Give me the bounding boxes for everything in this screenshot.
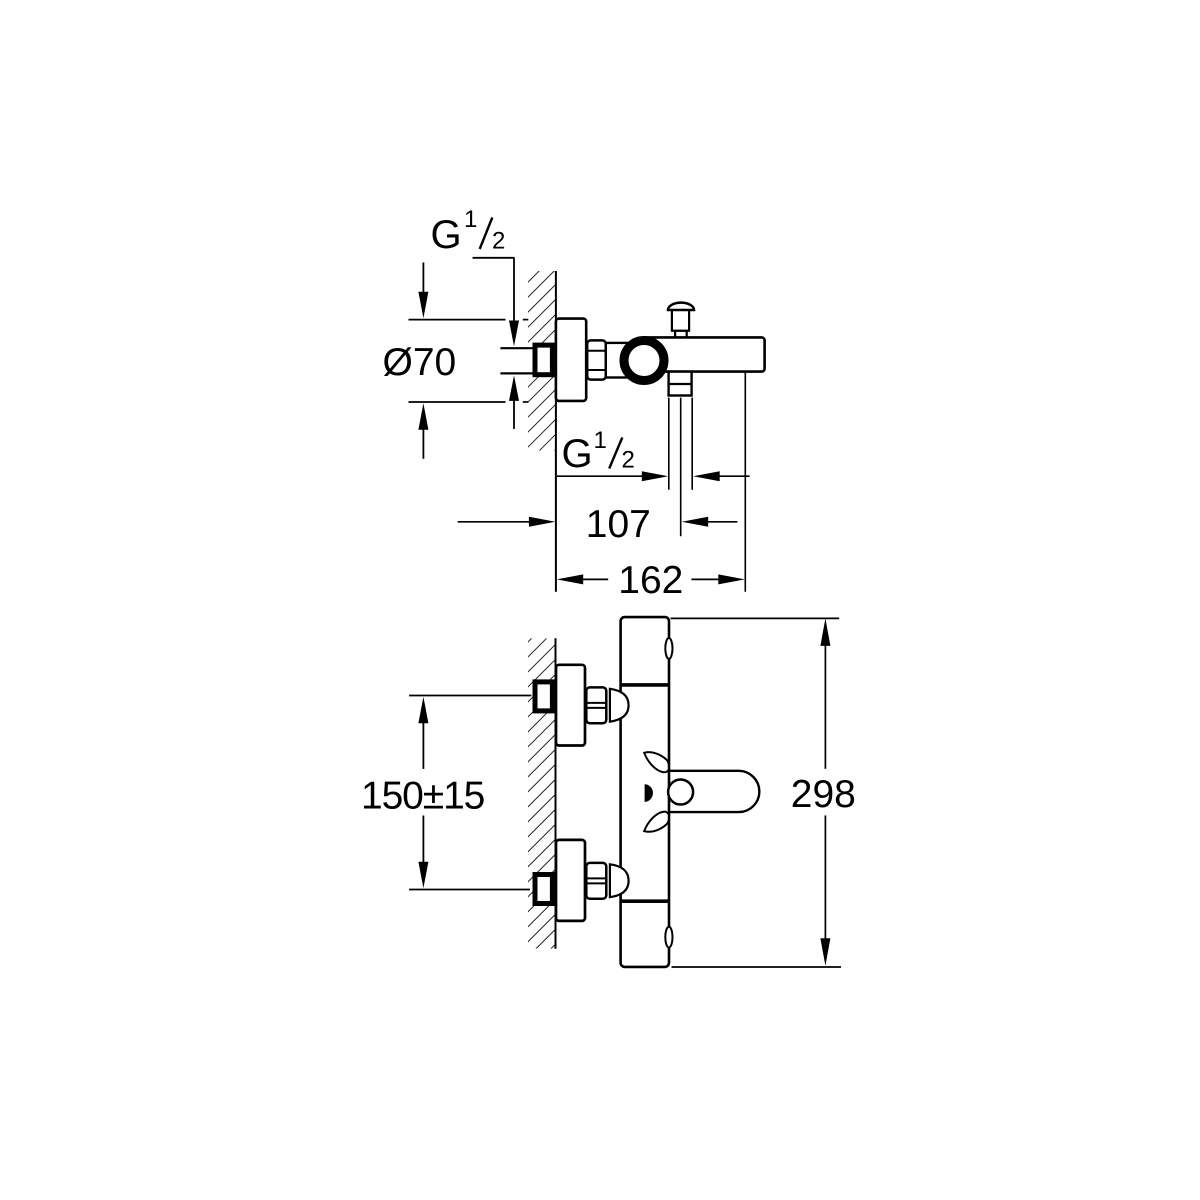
hex connection nut (top view)	[587, 340, 606, 379]
svg-text:298: 298	[791, 773, 856, 816]
union nut square behind wall (top view)	[535, 345, 552, 375]
svg-text:1: 1	[594, 427, 607, 454]
extension line top (dia 70)	[409, 319, 529, 321]
dimension 162 left arrow at wall	[557, 574, 609, 584]
diverter knob cap (top view)	[668, 303, 694, 310]
escutcheon rosette (top view)	[556, 319, 586, 401]
svg-text:1: 1	[464, 206, 477, 233]
diverter knob stem (top view)	[675, 331, 687, 338]
svg-text:107: 107	[586, 503, 651, 546]
arrow down (150)	[418, 816, 428, 889]
extension line bottom (dia 70)	[409, 401, 529, 403]
svg-text:162: 162	[618, 559, 683, 602]
spout bar body (top view)	[640, 337, 765, 371]
temperature ring circle (bottom view)	[668, 780, 693, 805]
lever handle outline (bottom view)	[669, 771, 760, 812]
arrow up (dia 70)	[418, 403, 428, 459]
dimension 107 right arrow at hose axis	[682, 517, 738, 527]
svg-text:2: 2	[492, 228, 505, 255]
label G 1/2 (lower)	[562, 427, 635, 476]
lower supply square behind wall (bottom view)	[535, 875, 552, 904]
dimension line 298 with arrows	[820, 618, 830, 965]
svg-text:G: G	[431, 213, 462, 257]
thermostat handle circle (top view)	[624, 341, 664, 381]
dimension 162 right arrow at spout end	[691, 574, 744, 584]
svg-text:150±15: 150±15	[361, 774, 485, 817]
extension line spout end (162)	[744, 373, 746, 592]
shower hose outlet block (top view)	[669, 372, 692, 396]
thermostat body (bottom view)	[621, 617, 669, 967]
svg-text:G: G	[562, 432, 593, 476]
supply pipe stub (top view)	[500, 347, 556, 374]
spout outlet dark slot (bottom view)	[645, 784, 653, 802]
wall face line (top view)	[555, 271, 557, 592]
extension line hose right edge	[691, 398, 693, 490]
extension line hose left edge	[668, 398, 670, 490]
upper escutcheon (bottom view)	[556, 665, 585, 746]
dimension line G 1/2 lower, left part with arrow	[557, 471, 668, 481]
body cap separation line upper	[621, 683, 669, 687]
valve inlet body (top view)	[606, 343, 644, 378]
svg-text:2: 2	[622, 447, 635, 474]
body cap separation line lower	[621, 899, 669, 903]
upper union dome (bottom view)	[610, 689, 629, 722]
extension line top (298)	[671, 617, 840, 619]
extension line bottom (298)	[672, 966, 842, 968]
arrow down (dia 70)	[418, 263, 428, 319]
screw cover bump lower	[665, 927, 672, 948]
wall hatching (top view)	[528, 271, 556, 451]
arrow up at pipe bottom (G 1/2 top)	[509, 375, 519, 429]
leader line G 1/2 top	[473, 258, 520, 346]
wall hatching (bottom view)	[528, 638, 556, 948]
wall face line (bottom view)	[555, 638, 557, 948]
lower hex nut (bottom view)	[586, 863, 606, 899]
dimension line G 1/2 lower, right part with arrow	[693, 471, 749, 481]
extension line bottom (150)	[409, 889, 530, 891]
lever grip tab lower (bottom view)	[644, 812, 669, 832]
extension line top (150)	[409, 695, 531, 697]
label G 1/2 (top)	[431, 206, 506, 257]
arrow up (150)	[418, 697, 428, 769]
svg-text:Ø70: Ø70	[383, 341, 457, 384]
centre extension line hose axis	[680, 398, 682, 537]
lower escutcheon (bottom view)	[556, 840, 585, 921]
screw cover bump upper	[665, 638, 672, 659]
dimension 107 left arrow at wall	[458, 517, 556, 527]
lever grip tab upper (bottom view)	[644, 752, 669, 772]
lower union dome (bottom view)	[610, 864, 629, 897]
diverter knob body (top view)	[672, 309, 689, 331]
upper hex nut (bottom view)	[586, 687, 606, 723]
upper supply square behind wall (bottom view)	[535, 682, 552, 711]
